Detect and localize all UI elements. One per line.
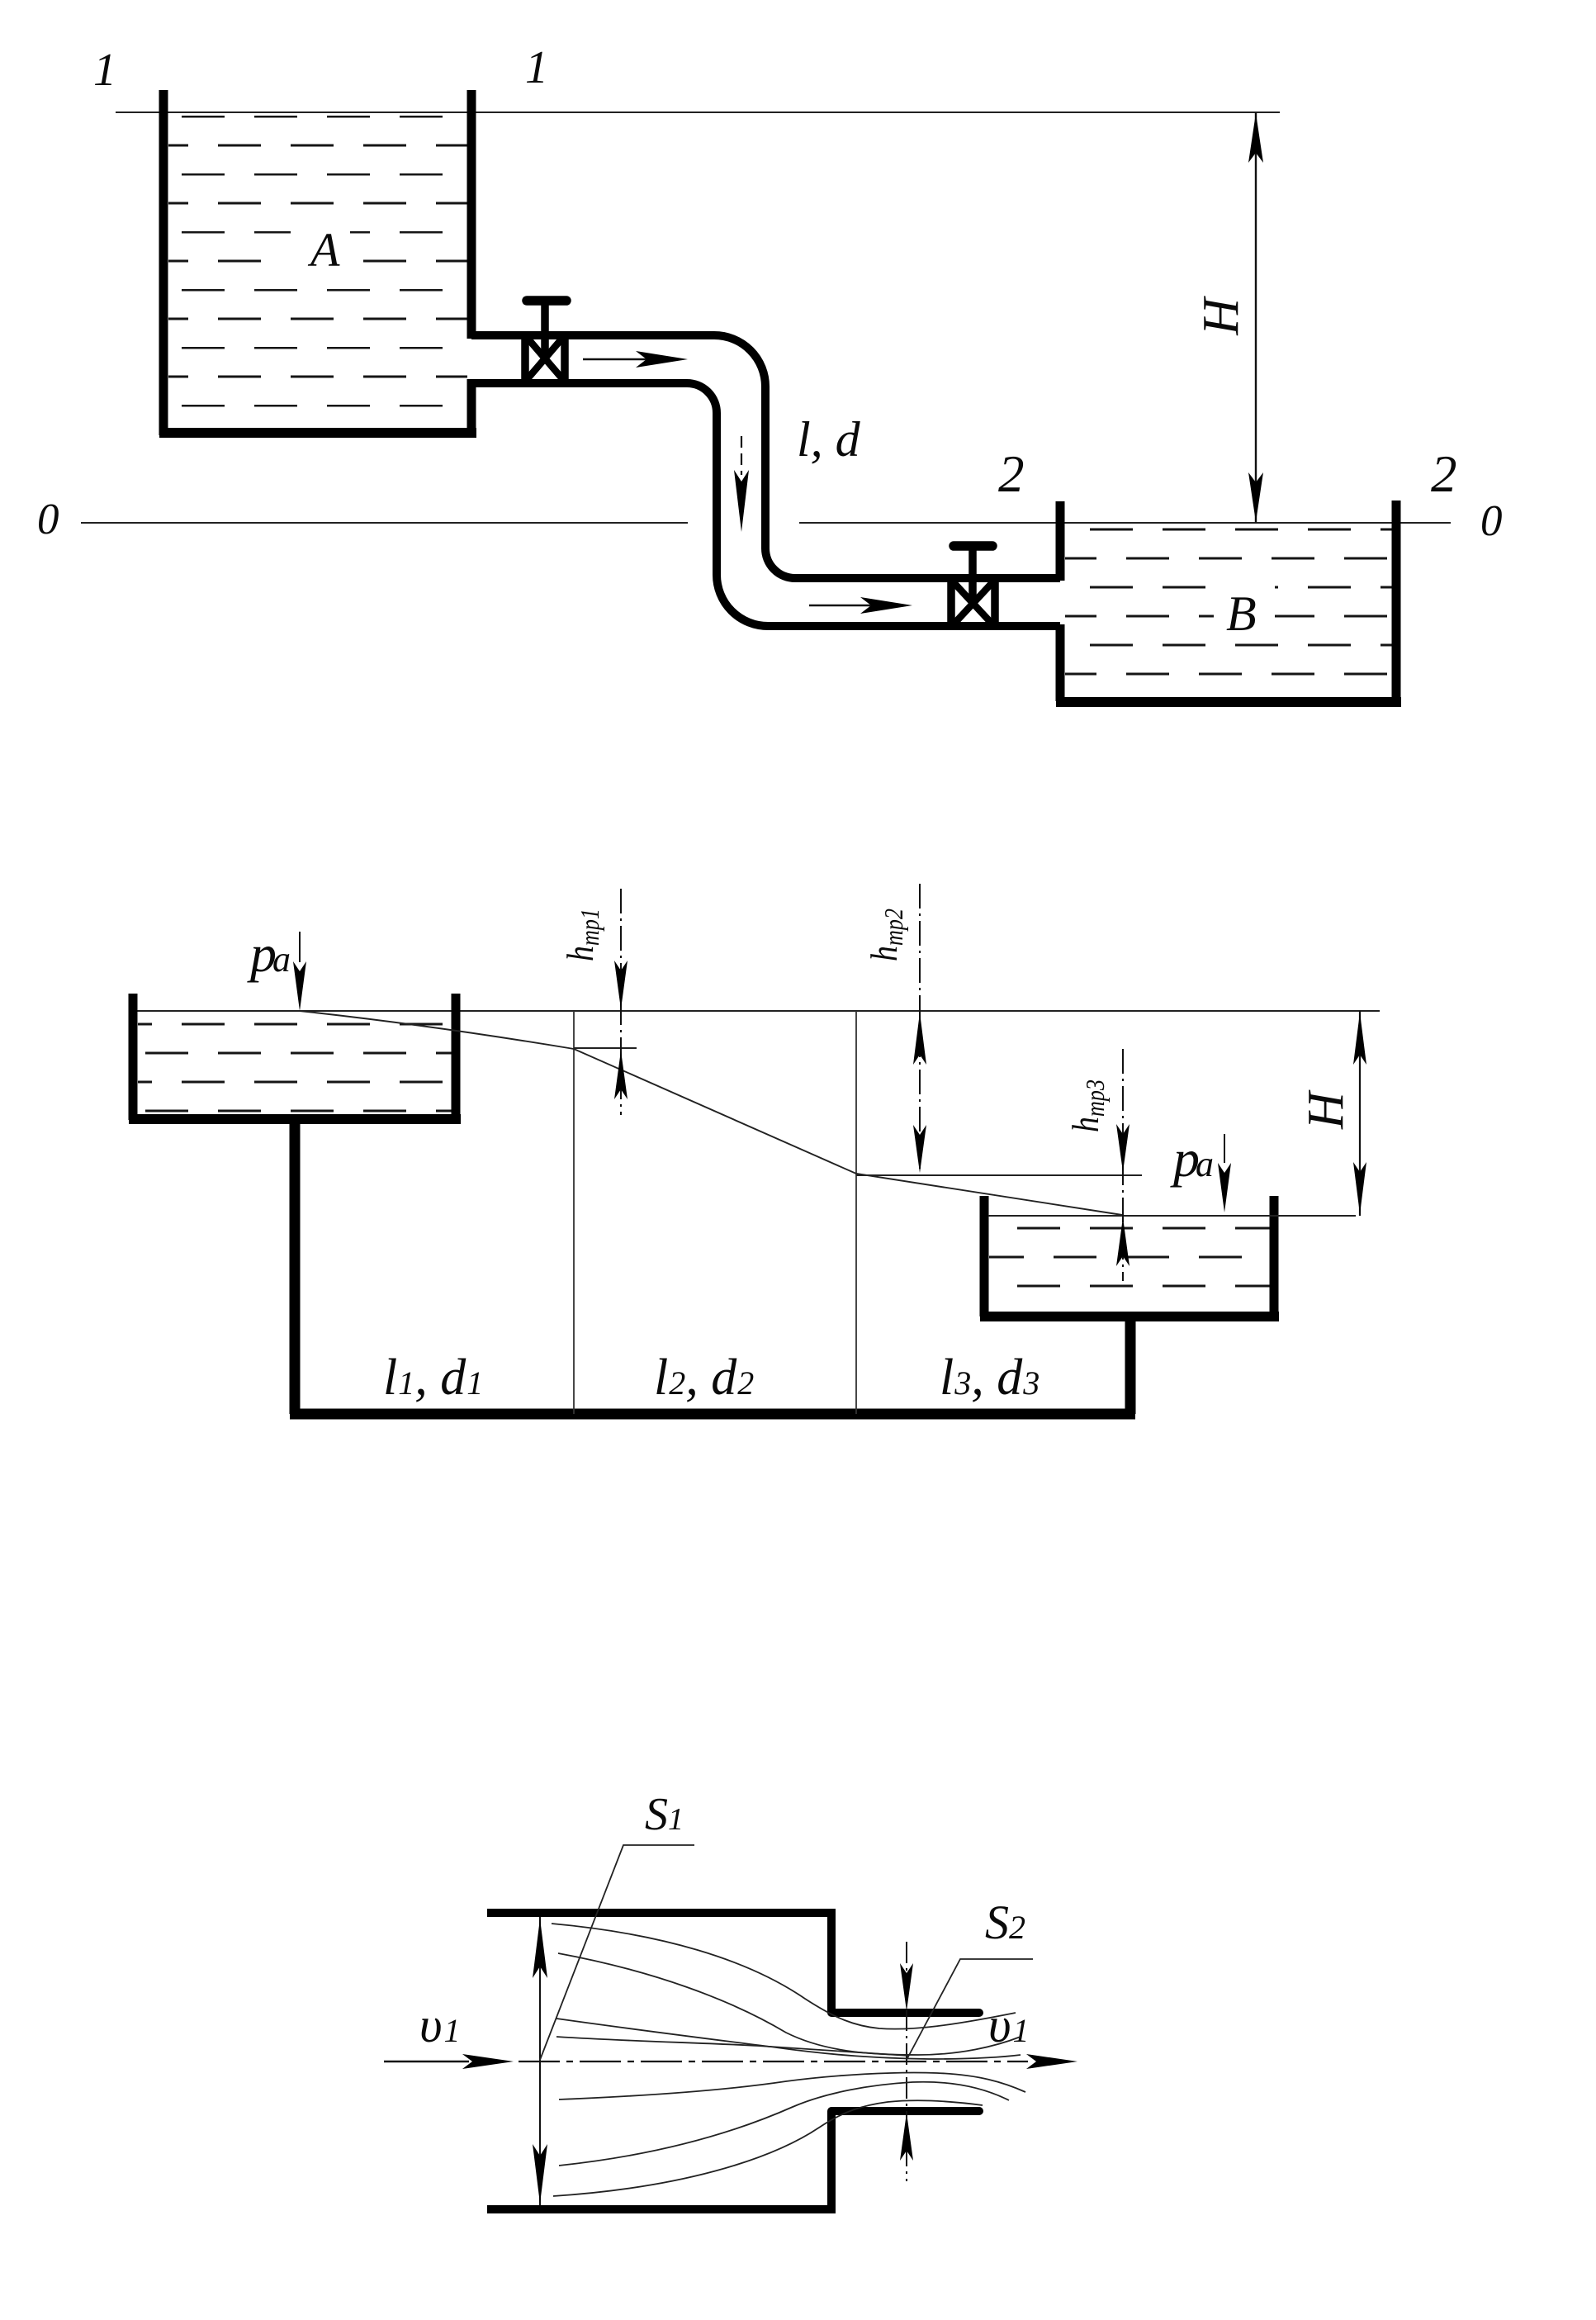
dim h_tp1 line	[620, 889, 622, 1115]
svg-text:B: B	[1226, 586, 1257, 641]
dim S1 lower arrowhead	[533, 2144, 547, 2204]
water of tank B	[1065, 524, 1392, 700]
big pipe bottom wall	[487, 2205, 836, 2213]
svg-text:υ1: υ1	[419, 1998, 461, 2052]
section divider line 2	[855, 1011, 857, 1414]
flow arrow in bottom pipe	[809, 597, 912, 614]
contraction step lower	[827, 2111, 836, 2209]
contraction step upper	[827, 1913, 836, 2013]
svg-text:1: 1	[93, 45, 116, 96]
svg-text:2: 2	[1431, 445, 1457, 503]
tank A right wall lower	[467, 379, 476, 433]
svg-text:l3, d3: l3, d3	[940, 1350, 1040, 1406]
svg-text:pа: pа	[1170, 1129, 1214, 1188]
dim h_tp2 upper arrowhead	[913, 1013, 926, 1065]
dim H middle lower arrowhead	[1353, 1162, 1366, 1214]
tank B bottom	[1056, 697, 1401, 707]
valve V1 handle	[527, 296, 566, 306]
dim h_tp3 line	[1122, 1049, 1124, 1281]
svg-text:1: 1	[525, 42, 548, 93]
svg-text:l2, d2: l2, d2	[654, 1350, 754, 1406]
water of tank A	[168, 115, 467, 429]
svg-text:2: 2	[998, 445, 1025, 503]
dim h_tp2 lower arrowhead	[913, 1125, 926, 1173]
level line 0-0 right segment	[799, 522, 1451, 524]
label B	[1214, 585, 1275, 638]
tank A left wall	[159, 90, 168, 435]
svg-text:S2: S2	[985, 1895, 1025, 1949]
svg-text:hтр3: hтр3	[1064, 1079, 1110, 1132]
dim S2 line	[906, 1942, 907, 2181]
dim h_tp1 lower arrowhead	[614, 1051, 628, 1099]
streamline d2	[559, 2082, 1009, 2166]
svg-text:0: 0	[37, 496, 59, 543]
streamline d1	[559, 2072, 1025, 2099]
svg-text:S1: S1	[645, 1789, 684, 1840]
svg-text:pа: pа	[247, 924, 291, 983]
dim h_tp2 line	[919, 884, 921, 1174]
tank A bottom	[159, 428, 476, 438]
big pipe top wall	[487, 1909, 836, 1917]
pipe l,d lower-inner wall	[471, 383, 1060, 626]
valve V2 stem	[968, 547, 977, 605]
dim h_tp1 upper arrowhead	[614, 961, 628, 1009]
tank 2 water line	[988, 1215, 1356, 1217]
dimension H upper arrowhead	[1248, 113, 1263, 163]
water of middle tank 2	[989, 1217, 1270, 1312]
svg-text:l, d: l, d	[797, 412, 861, 467]
streamline d3	[553, 2100, 983, 2196]
valve V2 handle	[954, 541, 992, 551]
flow arrow in vertical pipe	[734, 436, 749, 532]
S2 leader line	[907, 1959, 1033, 2060]
dim S2 lower arrowhead	[900, 2113, 913, 2161]
dim S1 upper arrowhead	[533, 1919, 547, 1978]
streamline u4	[556, 2037, 908, 2056]
dim H middle line	[1359, 1011, 1361, 1216]
svg-text:hтр1: hтр1	[559, 909, 604, 961]
tank 1 left wall	[129, 994, 138, 1120]
label A	[291, 221, 350, 273]
piezometric line	[300, 1011, 1122, 1215]
svg-text:0: 0	[1480, 497, 1503, 545]
svg-text:hтр2: hтр2	[863, 909, 908, 961]
dim h_tp3 lower arrowhead	[1116, 1217, 1130, 1266]
svg-text:A: A	[307, 223, 340, 277]
level line 1-1	[116, 111, 1280, 113]
tank 2 left wall	[980, 1196, 989, 1317]
streamline u2	[558, 1953, 1021, 2055]
S1 leader line	[540, 1845, 694, 2060]
pipe section 3 vertical	[1125, 1320, 1136, 1414]
tank B right wall	[1392, 501, 1401, 701]
pipe bottom horizontal	[290, 1409, 1135, 1420]
svg-text:l1, d1: l1, d1	[383, 1350, 483, 1406]
tank B left wall lower	[1056, 624, 1065, 701]
dim H middle upper arrowhead	[1353, 1013, 1366, 1065]
tank 2 bottom	[980, 1312, 1279, 1321]
inlet velocity arrow	[384, 2054, 514, 2069]
level line 0-0 left segment	[81, 522, 688, 524]
dim h_tp3 upper arrowhead	[1116, 1124, 1130, 1172]
arrow pa right	[1218, 1134, 1231, 1212]
arrow pa left	[293, 932, 306, 1011]
valve V2 body	[951, 577, 995, 629]
tank 1 bottom	[129, 1114, 461, 1124]
dim S2 upper arrowhead	[900, 1963, 913, 2011]
initial head line	[133, 1010, 1380, 1012]
tank A right wall upper	[467, 90, 476, 339]
streamline u3	[556, 2019, 1021, 2059]
dimension H lower arrowhead	[1248, 472, 1263, 522]
water of middle tank 1	[138, 1013, 452, 1115]
piezometric tick at section 1	[574, 1047, 637, 1049]
dimension H line	[1255, 112, 1257, 523]
small pipe bottom wall	[831, 2107, 979, 2115]
valve V1 body	[525, 333, 565, 385]
pipe section 1 vertical	[290, 1124, 301, 1414]
tank B left wall upper	[1056, 501, 1065, 581]
flow centerline	[519, 2061, 1028, 2062]
dim S1 line	[539, 1917, 541, 2205]
reference line after section 2	[856, 1174, 1142, 1176]
small pipe top wall	[831, 2009, 979, 2017]
section divider line 1	[573, 1011, 575, 1414]
tank 2 right wall	[1270, 1196, 1279, 1317]
tank 1 right wall	[452, 994, 461, 1120]
streamline u1	[552, 1924, 1016, 2029]
svg-text:H: H	[1298, 1089, 1354, 1130]
flow arrow in top pipe	[583, 351, 688, 368]
valve V1 stem	[541, 301, 549, 362]
pipe l,d upper-outer wall	[471, 335, 1060, 578]
svg-text:υ1: υ1	[988, 1998, 1030, 2052]
svg-text:H: H	[1193, 296, 1249, 336]
outlet velocity arrow	[1026, 2054, 1077, 2069]
